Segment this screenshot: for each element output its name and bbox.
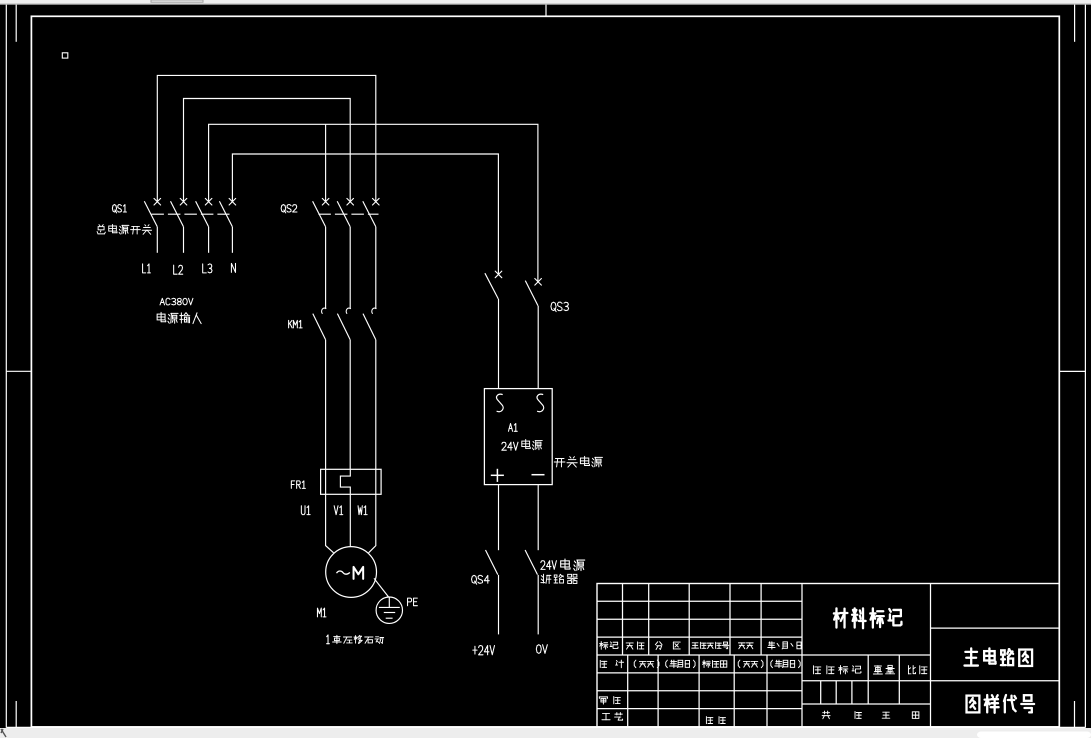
wire FR1 to motor phase V	[349, 494, 351, 546]
title: tu-yang-dai-hao (drawing code)	[967, 695, 1035, 713]
title: zhu-dian-lu-tu (main circuit diagram)	[964, 648, 1032, 666]
label kai-guan-dian-yuan (switching power supply)	[554, 456, 602, 467]
revision square marker	[62, 53, 68, 58]
label dian-yuan-shu-ru (power input)	[157, 312, 201, 323]
wire A1 plus output	[498, 485, 500, 551]
label KM1	[289, 320, 303, 328]
wire A1 minus output	[537, 485, 539, 551]
wire FR1 to motor phase W	[369, 494, 376, 553]
row: (qian-ming)	[634, 660, 659, 668]
paper border left edge	[5, 5, 7, 728]
label A1	[508, 424, 517, 432]
contactor KM1 (3 main contacts)	[313, 308, 377, 469]
switch QS3 (24V feed isolator)	[485, 271, 542, 389]
centering mark right	[1059, 370, 1085, 372]
header row: nian-yue-ri (date)	[768, 642, 801, 649]
label QS1	[112, 205, 126, 213]
label AC380V	[160, 298, 193, 305]
motor M letter	[354, 567, 364, 579]
wire FR1 to motor phase U	[326, 494, 334, 553]
pin W1	[358, 506, 367, 515]
header row: chu-shu (qty)	[626, 642, 644, 649]
centering mark top	[545, 5, 547, 17]
trim mark bottom-left	[15, 701, 17, 727]
title block grid lines	[597, 584, 1059, 728]
net +24V	[473, 646, 495, 655]
PSU switching symbol right	[537, 394, 544, 412]
node N	[231, 263, 235, 272]
app status bar bottom	[0, 728, 1091, 738]
cells: gong zhang di ye (sheet x of y)	[822, 711, 830, 719]
header row: geng-gai-wen-jian-hao (change doc no)	[692, 642, 729, 649]
label zong-dian-yuan-kai-guan (main power switch)	[97, 225, 151, 235]
trim mark top-right	[1074, 5, 1076, 42]
row: (nian-yue-ri)	[666, 660, 695, 668]
terminal minus sign	[532, 474, 545, 476]
paper border right edge	[1084, 5, 1086, 728]
wire L2 bus (QS1 pole2 to QS2 pole2)	[184, 99, 351, 203]
pin U1	[301, 506, 310, 515]
label M1	[317, 608, 326, 617]
label QS4	[472, 575, 490, 584]
breaker QS4 (24V supply breaker)	[486, 550, 539, 634]
motor M1 circle	[326, 547, 377, 598]
node L3	[203, 264, 212, 273]
label 24V dian-yuan duan-lu-qi (24V supply breaker)	[541, 561, 557, 570]
earth (PE) symbol	[376, 597, 402, 623]
value label 24V dian-yuan (24V supply)	[502, 442, 518, 450]
label QS3	[551, 302, 569, 311]
row: (nian-yue-ri) 2	[771, 660, 800, 668]
row: she-ji (design)	[600, 660, 623, 668]
row: gong-yi (process)	[602, 713, 623, 721]
header row: biao-ji (mark)	[600, 642, 618, 650]
paper bottom edge	[6, 726, 1085, 728]
row: shen-he (check)	[599, 697, 620, 705]
node L2	[174, 265, 183, 274]
wire L1 bus (QS1 pole1 up, across, down to QS2 pole3)	[157, 75, 375, 202]
cell: bi-li (scale)	[908, 666, 927, 674]
row: pi-zhun (approval)	[706, 717, 725, 724]
label QS2	[281, 205, 297, 213]
title block outline	[597, 584, 1059, 728]
power supply unit A1 box	[484, 389, 552, 485]
wire branch L3 bus down to QS2 pole1	[325, 124, 327, 202]
centering mark left	[6, 370, 31, 372]
wire motor frame to PE earth	[374, 578, 389, 597]
trim mark bottom-right	[1074, 701, 1076, 727]
wire L3 bus (QS1 pole3 across to QS3 right pole)	[209, 124, 538, 282]
motor tilde symbol	[337, 571, 350, 574]
switch QS1 (4-pole main isolator)	[144, 198, 235, 252]
net 0V	[536, 645, 547, 654]
header row: qian-ming (signature)	[738, 643, 753, 649]
row: (qian-ming) 2	[738, 660, 763, 668]
node L1	[143, 264, 151, 273]
switch QS2	[313, 198, 380, 308]
trim mark top-left	[15, 5, 17, 42]
cell: jie-duan-biao-ji (stage mark)	[813, 665, 860, 674]
title: cai-liao-biao-ji (material mark)	[834, 608, 902, 628]
label PE	[408, 598, 418, 606]
cell: zhong-liang (weight)	[873, 665, 894, 674]
label FR1	[291, 481, 305, 489]
row: biao-zhun-hua (standardization)	[703, 660, 727, 667]
PSU switching symbol left	[497, 394, 504, 412]
wire N bus (QS1 pole4 across to QS3 left pole)	[232, 154, 498, 275]
header row: fen-qu (zone)	[655, 642, 680, 650]
thermal overload relay FR1	[321, 469, 382, 494]
label 1-che-zuo-yi-you-dong (motor duty)	[327, 635, 330, 644]
pin V1	[334, 506, 343, 515]
terminal plus sign	[491, 469, 504, 482]
app toolbar strip top	[0, 0, 1091, 5]
